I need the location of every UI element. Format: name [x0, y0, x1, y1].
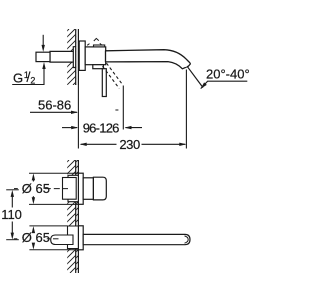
svg-text:20°-40°: 20°-40° — [206, 67, 250, 82]
svg-text:Ø 65: Ø 65 — [22, 230, 50, 245]
svg-text:110: 110 — [1, 207, 22, 222]
svg-text:96-126: 96-126 — [83, 120, 119, 135]
svg-text:56-86: 56-86 — [38, 98, 71, 113]
svg-text:G: G — [13, 70, 23, 85]
svg-text:230: 230 — [119, 137, 140, 152]
svg-text:2: 2 — [30, 75, 35, 85]
